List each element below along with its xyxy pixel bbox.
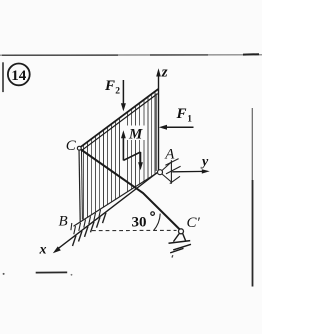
plate edge right — [155, 94, 157, 172]
svg-text:F: F — [104, 78, 115, 94]
support A bracket — [162, 160, 171, 183]
scan dash bottom left — [36, 271, 67, 273]
svg-text:y: y — [200, 154, 209, 169]
svg-text:1: 1 — [187, 115, 192, 125]
svg-text:14: 14 — [11, 68, 27, 84]
page rule left tick — [2, 62, 4, 92]
ground hatching upper row near B — [74, 210, 101, 235]
support C' triangle — [173, 233, 185, 241]
svg-text:M: M — [128, 127, 143, 143]
svg-text:x: x — [39, 243, 47, 258]
bar C to C' — [80, 149, 181, 231]
x axis — [57, 172, 159, 250]
node C — [77, 146, 81, 150]
svg-text:30: 30 — [132, 215, 147, 231]
support C' pin — [179, 229, 184, 234]
label M backing — [127, 126, 148, 141]
moment M couple — [122, 135, 124, 160]
svg-text:C′: C′ — [187, 215, 201, 231]
page rule top — [0, 54, 262, 56]
plate edge bottom — [74, 172, 159, 226]
dashed line to C' — [92, 229, 177, 231]
support C' base — [169, 241, 191, 244]
plate edge left (double) — [79, 148, 80, 221]
z axis — [158, 74, 160, 173]
force F2 arrow — [122, 80, 124, 107]
support A hatching — [165, 159, 180, 184]
svg-text:z: z — [161, 65, 168, 81]
support A pin — [158, 170, 163, 175]
angle 30 arc — [154, 214, 161, 231]
scan edge line right — [251, 108, 253, 180]
tick after B — [70, 223, 73, 230]
svg-text:F: F — [176, 106, 187, 122]
force F1 arrow — [164, 126, 194, 128]
scan dot mid — [71, 274, 73, 276]
support C' hatching — [170, 244, 191, 253]
scan dot left — [3, 273, 5, 275]
svg-text:B: B — [59, 214, 68, 230]
y axis — [172, 170, 206, 172]
svg-text:C: C — [66, 138, 77, 154]
svg-text:2: 2 — [115, 87, 120, 97]
ground hatching lower row under x axis — [73, 213, 107, 246]
plate edge top (double) — [79, 89, 158, 148]
scan tick below C' — [171, 255, 174, 257]
svg-text:A: A — [164, 147, 175, 163]
plate hatching — [84, 85, 156, 230]
figure number circle 14 — [8, 64, 30, 86]
